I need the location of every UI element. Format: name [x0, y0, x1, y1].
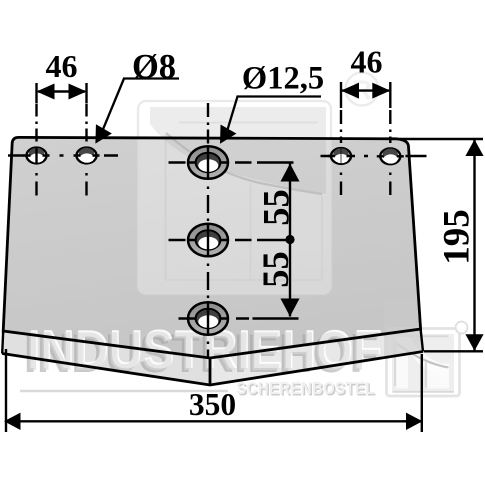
- left pair: vertical centre line x=86.5: [85, 104, 87, 196]
- small hole B (x=86.5): [74, 148, 100, 164]
- inner top edge: [179, 122, 318, 124]
- N sail white: [397, 337, 409, 389]
- right pair: vertical centre line x=390.3: [389, 110, 391, 195]
- plate outline: [3, 137, 420, 358]
- big hole 2: horizontal centre line y=240: [169, 239, 294, 241]
- dim 195 right: [400, 139, 484, 351]
- curl curve: [166, 133, 322, 194]
- dim 55 x2 vertical: [255, 164, 300, 317]
- svg-text:46: 46: [46, 48, 78, 84]
- plate front band left fill: [2, 331, 210, 385]
- label diameter 8 with leader: [87, 48, 179, 148]
- small logo square bottom-right: [387, 322, 468, 397]
- plate top face fill: [3, 137, 420, 358]
- gray edges: [394, 343, 396, 387]
- inner-left bar edge: [165, 135, 167, 280]
- svg-text:Ø12,5: Ø12,5: [242, 61, 324, 97]
- dim 46 right: [341, 44, 390, 109]
- svg-text:350: 350: [189, 387, 236, 422]
- plate front band right fill: [210, 329, 423, 385]
- sail fill above curve: [150, 107, 326, 194]
- thin rule under watermark: [20, 390, 228, 392]
- V crease: [209, 358, 212, 385]
- right pair: vertical centre line x=341: [340, 110, 342, 195]
- big hole 3 (208,318.5): [187, 302, 229, 335]
- SCHERENBOSTEL: [236, 379, 376, 400]
- small hole D (x=390.3): [377, 148, 404, 164]
- right pair: horizontal centre line row y=156: [321, 155, 427, 157]
- DIMENSIONS: [4, 44, 484, 433]
- svg-text:195: 195: [437, 209, 478, 265]
- front band bottom edge: [2, 352, 423, 386]
- (R): [456, 322, 468, 334]
- band side edges: [2, 331, 3, 354]
- INDUSTRIEHOF big text (emboss): [24, 319, 383, 384]
- label diameter 12,5 with leader: [212, 61, 324, 149]
- left pair: horizontal centre line row y=155.5: [8, 154, 118, 156]
- LINEWORK: [2, 137, 423, 385]
- big hole 2 (208,240): [187, 224, 229, 257]
- dim 46 left: [37, 48, 87, 103]
- svg-text:SCHERENBOSTEL: SCHERENBOSTEL: [236, 379, 375, 398]
- svg-text:46: 46: [351, 44, 383, 80]
- big central logo square: [138, 73, 379, 295]
- svg-text:Ø8: Ø8: [132, 48, 176, 86]
- small hole C (x=341): [328, 148, 355, 165]
- left pair: vertical centre line x=36.5: [35, 104, 37, 196]
- big hole 1 (208,162.5): [187, 146, 229, 179]
- mute logo over plate corner: [3, 137, 423, 385]
- WATERMARK: [3, 73, 467, 400]
- svg-text:55: 55: [255, 251, 296, 288]
- big (R): [346, 73, 379, 106]
- big hole 3: horizontal centre line y=318.5: [179, 317, 299, 319]
- big holes: vertical centre line x=208: [207, 103, 209, 357]
- CENTERLINES: [8, 103, 427, 357]
- small hole A (x=36.5): [24, 148, 50, 165]
- HOLES: [24, 146, 404, 335]
- svg-text:55: 55: [256, 189, 297, 226]
- dim 350 bottom: [4, 349, 423, 432]
- small inner square: [166, 183, 323, 280]
- big hole 1: horizontal centre line y=162.5: [169, 161, 294, 163]
